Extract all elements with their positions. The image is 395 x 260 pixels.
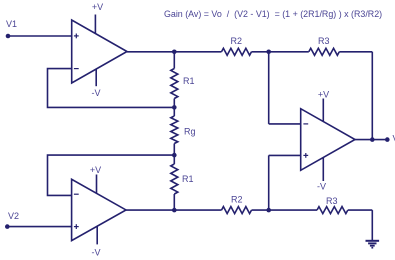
svg-text:R1: R1 (182, 174, 194, 184)
svg-text:V2: V2 (8, 211, 19, 221)
svg-text:R1: R1 (183, 76, 195, 86)
svg-text:R3: R3 (326, 196, 338, 206)
svg-text:+V: +V (318, 90, 329, 100)
svg-text:R2: R2 (231, 194, 243, 204)
svg-text:+V: +V (90, 165, 101, 175)
svg-text:R3: R3 (318, 36, 330, 46)
svg-text:Gain (Av) = Vo / (V2 - V1): Gain (Av) = Vo / (V2 - V1) = (1 + (2R1/R… (164, 9, 382, 19)
svg-text:-V: -V (317, 181, 326, 191)
svg-text:-V: -V (92, 88, 101, 98)
svg-text:-V: -V (92, 248, 101, 258)
svg-text:R2: R2 (231, 36, 243, 46)
svg-text:V1: V1 (6, 19, 17, 29)
svg-text:+V: +V (92, 2, 103, 12)
svg-text:Rg: Rg (184, 126, 196, 136)
